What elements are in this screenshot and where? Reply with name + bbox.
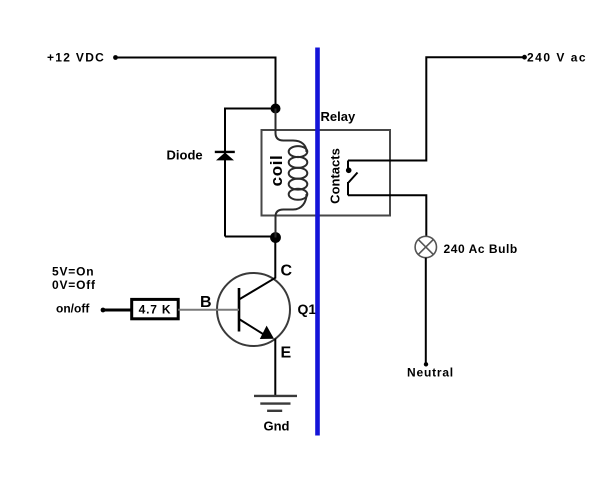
wire contact common to 240V rail [348,57,524,160]
wire bulb to neutral [425,258,427,364]
svg-text:4.7 K: 4.7 K [139,303,172,317]
lamp 240 AC bulb [415,236,436,257]
svg-text:+12 VDC: +12 VDC [47,51,105,65]
svg-text:0V=Off: 0V=Off [52,278,96,292]
svg-text:coil: coil [267,155,286,187]
terminal dot 240 V ac [522,55,527,60]
svg-text:240 V ac: 240 V ac [527,51,587,65]
transistor Q1 [217,273,290,346]
relay coil [276,109,308,238]
wire diode branch vertical [224,108,226,237]
junction J1 [271,104,281,114]
svg-text:5V=On: 5V=On [52,265,94,279]
svg-text:E: E [281,345,292,362]
diode D1 [215,152,235,161]
wire diode branch top [225,108,276,110]
terminal dot +12 VDC [113,55,118,60]
wire diode branch bottom [225,236,276,238]
relay contacts [348,161,358,196]
divider blue line [315,48,320,436]
wire resistor to base [178,309,239,311]
svg-text:Q1: Q1 [298,301,317,317]
svg-text:240 Ac Bulb: 240 Ac Bulb [444,242,518,256]
wire +12V horizontal [116,57,276,59]
ground [254,396,297,411]
resistor R1 [132,299,179,318]
wire on/off to resistor [103,309,132,312]
wire collector [274,238,276,279]
svg-text:Neutral: Neutral [407,366,454,380]
svg-text:on/off: on/off [56,302,90,316]
svg-text:Diode: Diode [167,148,203,163]
contact pivot dot [346,168,352,174]
svg-text:Gnd: Gnd [264,419,290,434]
svg-text:Relay: Relay [321,109,356,124]
relay box [262,130,391,216]
terminal dot neutral [424,362,428,366]
svg-text:C: C [281,263,293,280]
wire +12V vertical [275,57,277,109]
wire contact NO to bulb [348,195,426,236]
terminal dot on/off [101,308,106,313]
junction J2 [270,232,281,243]
svg-text:B: B [200,294,212,311]
svg-text:Contacts: Contacts [328,148,343,204]
wire emitter [274,339,276,396]
